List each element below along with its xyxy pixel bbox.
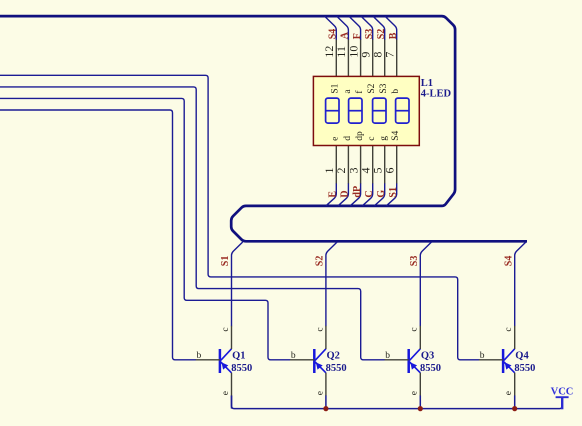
- svg-text:B: B: [388, 32, 399, 39]
- power port VCC: [556, 396, 569, 398]
- pin e of Q1: [231, 373, 233, 396]
- wire emitter of Q3 to rail: [419, 396, 421, 409]
- svg-text:S2: S2: [376, 29, 387, 40]
- svg-text:E: E: [328, 191, 339, 198]
- wire bus entry to L1 pin 10: [349, 17, 360, 41]
- wire bus entry net S4: [515, 242, 526, 326]
- display digit 3: [373, 98, 386, 123]
- wire bus entry to L1 pin 11: [337, 17, 348, 41]
- svg-text:C: C: [364, 190, 375, 197]
- pin 1 of L1: [335, 145, 337, 184]
- pin 2 of L1: [347, 145, 349, 184]
- svg-text:S2: S2: [315, 256, 326, 267]
- display digit 1: [326, 98, 339, 123]
- wire bus loop (thick segment-display bus): [0, 16, 527, 241]
- junction dot at Q4 emitter: [512, 406, 517, 411]
- wire bus entry from L1 pin 3: [350, 183, 360, 205]
- svg-text:8550: 8550: [420, 363, 441, 374]
- svg-text:e: e: [504, 391, 514, 395]
- svg-text:8550: 8550: [514, 363, 535, 374]
- junction dot at Q2 emitter: [323, 406, 328, 411]
- svg-text:S1: S1: [220, 256, 231, 267]
- wire emitter of Q1 to rail: [231, 396, 233, 409]
- wire bus entry from L1 pin 5: [375, 183, 385, 205]
- wire bus entry to L1 pin 7: [385, 17, 396, 41]
- pin 8 of L1: [384, 40, 386, 77]
- wire bus entry net S2: [326, 242, 337, 326]
- svg-text:S1: S1: [388, 187, 399, 198]
- pin 4 of L1: [372, 145, 374, 184]
- svg-text:S4: S4: [328, 29, 339, 40]
- wire bus entry from L1 pin 1: [326, 183, 336, 205]
- pin e of Q2: [325, 373, 327, 396]
- pin 12 of L1: [335, 40, 337, 77]
- svg-text:4-LED: 4-LED: [421, 88, 452, 99]
- wire bus entry from L1 pin 4: [363, 183, 373, 205]
- pin 7 of L1: [396, 40, 398, 77]
- wire bus entry from L1 pin 6: [387, 183, 397, 205]
- svg-text:b: b: [391, 89, 401, 94]
- wire bus entry from L1 pin 2: [338, 183, 348, 205]
- svg-text:D: D: [340, 190, 351, 197]
- svg-text:c: c: [221, 327, 231, 331]
- pin 11 of L1: [347, 40, 349, 77]
- svg-text:F: F: [352, 33, 363, 39]
- wire W2 (to Q3 base): [0, 87, 385, 360]
- svg-text:c: c: [315, 327, 325, 331]
- display digit 2: [349, 98, 362, 123]
- pin 9 of L1: [372, 40, 374, 77]
- svg-text:VCC: VCC: [551, 387, 574, 398]
- svg-text:g: g: [379, 136, 389, 141]
- svg-text:b: b: [480, 351, 485, 361]
- component L1 4-LED display body: [313, 76, 419, 145]
- display digit 4: [396, 98, 409, 123]
- svg-text:e: e: [331, 137, 341, 141]
- svg-text:8550: 8550: [326, 363, 347, 374]
- transistor Q2: [314, 349, 326, 373]
- pin e of Q3: [419, 373, 421, 396]
- transistor Q1: [220, 349, 232, 373]
- svg-text:S1: S1: [331, 83, 341, 93]
- svg-text:7: 7: [383, 52, 397, 58]
- svg-text:Q2: Q2: [327, 350, 340, 361]
- wire W3 (to Q2 base): [0, 98, 290, 359]
- svg-text:b: b: [385, 351, 390, 361]
- svg-text:A: A: [340, 31, 351, 39]
- svg-text:Q3: Q3: [421, 350, 434, 361]
- pin e of Q4: [514, 373, 516, 396]
- svg-text:dp: dp: [355, 131, 365, 141]
- pin b of Q4: [479, 359, 503, 361]
- svg-text:S3: S3: [409, 256, 420, 267]
- svg-text:Q4: Q4: [515, 350, 529, 361]
- svg-text:e: e: [221, 391, 231, 395]
- wire W1 (to Q4 base): [0, 75, 479, 360]
- wire bus entry net S3: [420, 242, 431, 326]
- pin 5 of L1: [384, 145, 386, 184]
- svg-text:S2: S2: [367, 83, 377, 93]
- wire emitter of Q2 to rail: [325, 396, 327, 409]
- pin 10 of L1: [360, 40, 362, 77]
- pin c of Q2: [325, 326, 327, 349]
- svg-text:G: G: [376, 190, 387, 198]
- transistor Q4: [503, 349, 515, 373]
- pin b of Q3: [385, 359, 409, 361]
- pin b of Q2: [290, 359, 314, 361]
- junction dot at Q3 emitter: [418, 406, 423, 411]
- svg-text:S4: S4: [391, 131, 401, 141]
- pin c of Q4: [514, 326, 516, 349]
- transistor Q3: [409, 349, 421, 373]
- svg-text:S4: S4: [503, 256, 514, 267]
- wire VCC stem: [561, 397, 563, 409]
- svg-text:b: b: [197, 351, 202, 361]
- wire W4 (to Q1 base): [0, 110, 196, 360]
- svg-text:S3: S3: [364, 29, 375, 40]
- pin 6 of L1: [396, 145, 398, 184]
- wire emitter of Q4 to rail: [514, 396, 516, 409]
- pin b of Q1: [196, 359, 220, 361]
- wire bus entry to L1 pin 9: [361, 17, 372, 41]
- svg-text:c: c: [367, 137, 377, 141]
- wire bus entry to L1 pin 8: [373, 17, 384, 41]
- svg-text:c: c: [410, 327, 420, 331]
- svg-text:b: b: [291, 351, 296, 361]
- pin 3 of L1: [360, 145, 362, 184]
- wire bus entry to L1 pin 12: [325, 17, 336, 41]
- svg-text:d: d: [343, 136, 353, 141]
- svg-text:e: e: [315, 391, 325, 395]
- svg-text:Q1: Q1: [232, 350, 245, 361]
- svg-text:S3: S3: [379, 83, 389, 93]
- svg-text:8550: 8550: [231, 363, 252, 374]
- pin c of Q1: [231, 326, 233, 349]
- svg-text:6: 6: [383, 168, 397, 174]
- svg-text:dP: dP: [352, 186, 363, 198]
- svg-text:e: e: [410, 391, 420, 395]
- svg-text:c: c: [504, 327, 514, 331]
- wire emitter rail: [232, 396, 563, 409]
- wire bus entry net S1: [232, 242, 243, 326]
- pin c of Q3: [419, 326, 421, 349]
